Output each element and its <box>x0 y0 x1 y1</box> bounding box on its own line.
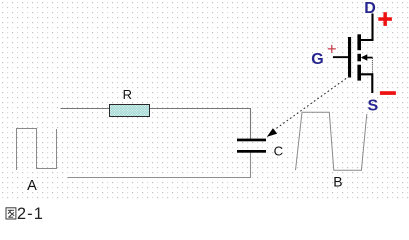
svg-text:C: C <box>274 143 283 158</box>
waveform B (trapezoid wave) <box>296 112 367 170</box>
transistor Q1 gate bar <box>348 37 351 78</box>
dashed arrow from gate to capacitor C <box>267 76 350 137</box>
resistor R <box>110 105 150 117</box>
svg-text:R: R <box>123 87 132 102</box>
svg-text:2-1: 2-1 <box>17 205 44 223</box>
waveform A (square wave source) <box>17 129 57 171</box>
transistor Q1 channel segment (drain) <box>357 34 361 50</box>
svg-text:B: B <box>333 174 342 190</box>
transistor Q1 channel segment (bulk) <box>357 54 361 62</box>
capacitor C top plate <box>237 139 266 142</box>
transistor Q1 bulk-source link <box>371 58 373 74</box>
wire: bottom net from capacitor C to left <box>68 153 251 178</box>
svg-text:G: G <box>311 51 323 68</box>
caption 图2-1 <box>6 205 44 223</box>
polarity + at gate <box>328 45 336 53</box>
polarity - at source <box>380 91 396 95</box>
transistor Q1 gate lead <box>333 56 348 58</box>
svg-text:A: A <box>27 178 37 194</box>
polarity + at drain <box>378 12 392 26</box>
wire: top net from left end through R to capacitor C <box>61 109 251 140</box>
transistor Q1 drain lead <box>361 14 373 41</box>
transistor Q1 source lead <box>361 74 372 93</box>
capacitor C bottom plate <box>237 150 266 153</box>
svg-text:D: D <box>364 0 376 17</box>
transistor Q1 channel segment (source) <box>357 65 361 81</box>
svg-text:S: S <box>368 98 379 115</box>
transistor Q1 bulk arrow <box>361 54 373 61</box>
